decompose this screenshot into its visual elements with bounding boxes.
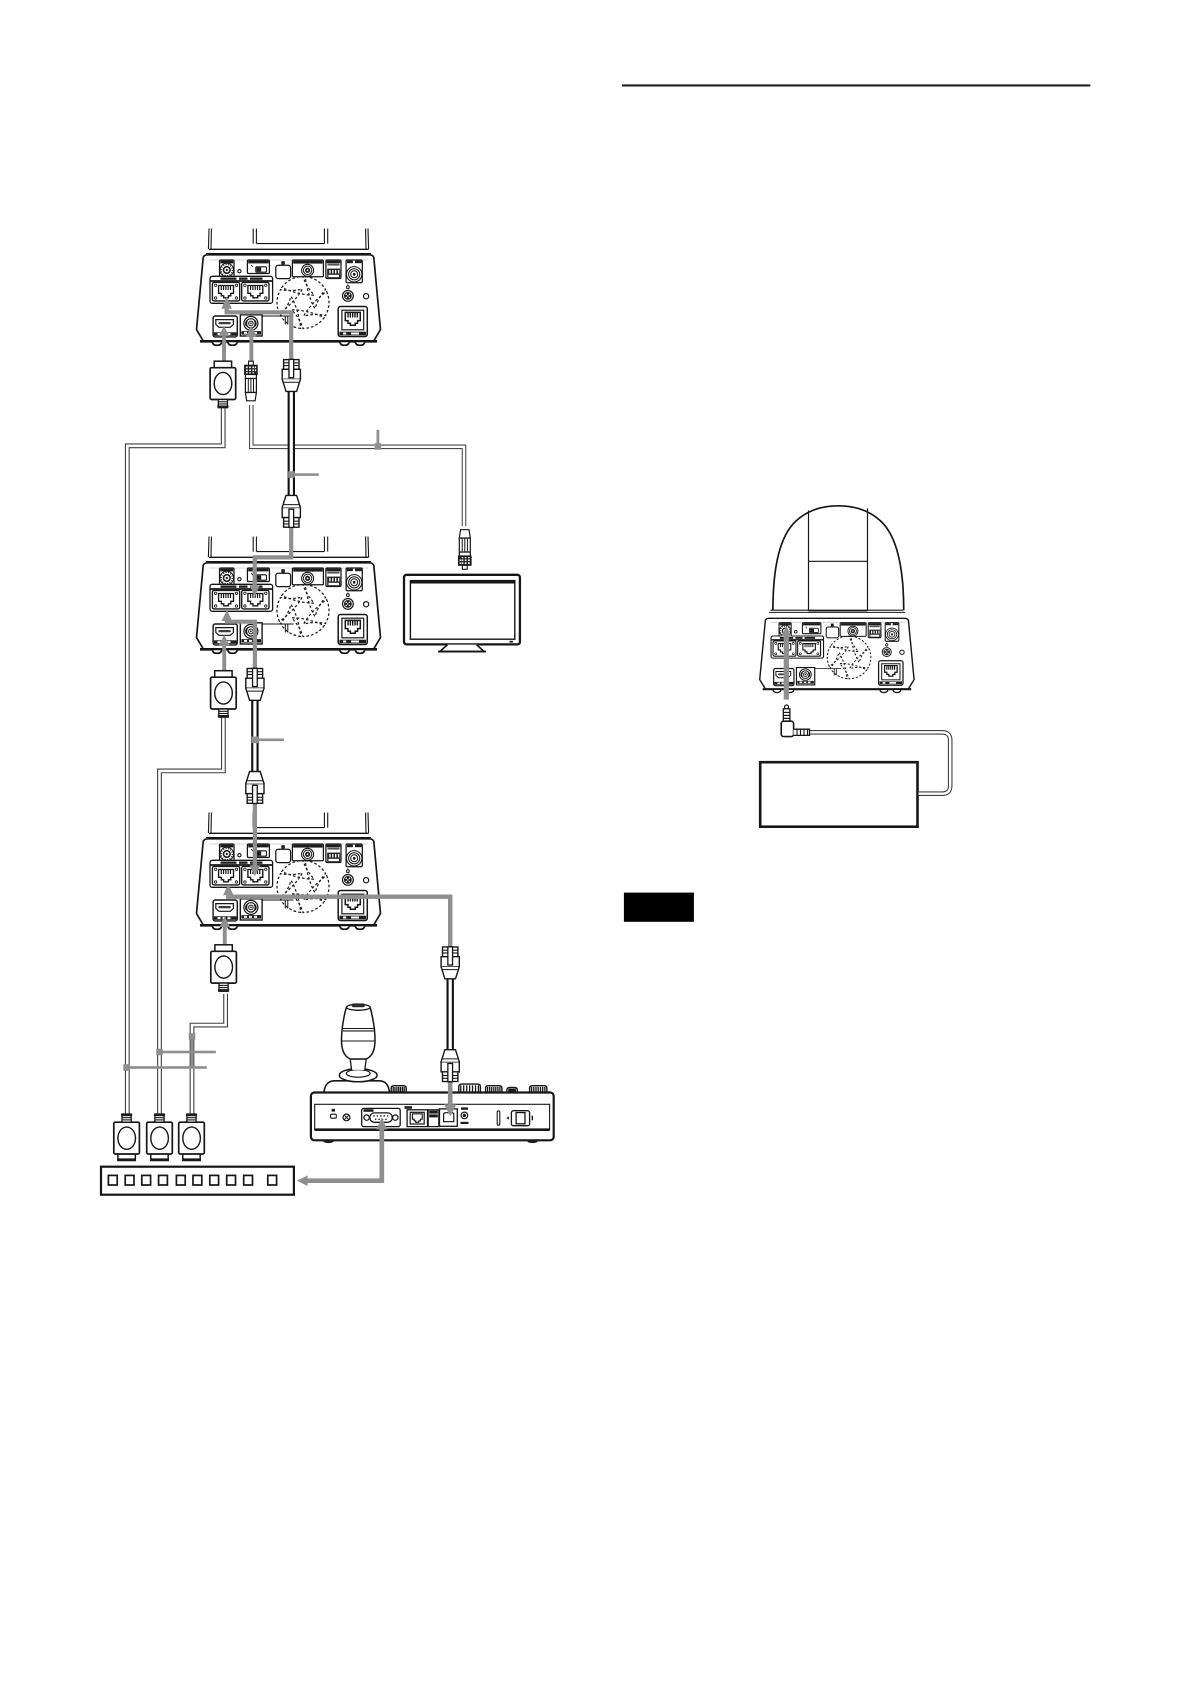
leader tick HDMI cable B: [156, 1049, 216, 1056]
wire cam2 RS422 jack to LAN cable 2: [222, 610, 255, 669]
controller LAN port: [405, 1106, 428, 1126]
controller joystick: [324, 1003, 390, 1094]
HDMI plug hub 1: [114, 1114, 140, 1161]
camera 1 (top left): [197, 229, 381, 346]
wire cam1 SDI arrow: [246, 326, 257, 362]
leader tick LAN cable 1: [288, 471, 319, 478]
controller knobs: [391, 1086, 406, 1093]
network hub: [101, 1167, 294, 1195]
power cable (adaptor): [809, 732, 951, 793]
BNC plug cam1: [245, 361, 258, 401]
controller slot: [497, 1111, 500, 1125]
wire LAN cable 1 into cam2 right jack: [249, 527, 291, 596]
camera 2 (middle left): [197, 537, 381, 654]
LAN cable 2 (cam2-cam3): [246, 668, 264, 803]
note box: [624, 893, 694, 922]
leader tick HDMI cable A: [123, 1064, 206, 1071]
controller power switch: [506, 1111, 533, 1126]
controller screw: [343, 1114, 350, 1121]
controller lock slot: [331, 1109, 337, 1118]
wire cam1 HDMI arrow: [219, 326, 230, 362]
DC plug: [781, 705, 809, 737]
monitor: [404, 575, 520, 652]
HDMI cable B (cam2 to hub): [160, 712, 224, 1118]
HDMI cable A (cam1 to hub): [127, 404, 223, 1118]
wire LAN cable 2 into cam3 right jack: [250, 803, 261, 876]
controller mid panel: [428, 1110, 439, 1127]
controller body: [311, 1093, 554, 1144]
wire cam1 RS422 jack to LAN cable: [221, 297, 291, 361]
wire cam3 HDMI arrow: [219, 917, 230, 946]
wire DC arrow into camera 4: [781, 627, 792, 700]
wire controller VISCA to hub: [297, 1118, 388, 1187]
AC adaptor: [760, 762, 917, 827]
BNC plug monitor: [459, 530, 472, 570]
hub ports: [108, 1175, 276, 1185]
SDI coax cable to monitor: [251, 405, 464, 526]
HDMI plug hub 2: [147, 1114, 173, 1161]
LAN cable 1 (cam1-cam2): [282, 359, 300, 527]
leader tick LAN cable 2: [252, 737, 284, 744]
HDMI plug cam3: [211, 945, 237, 992]
controller VISCA D-sub: [362, 1108, 401, 1126]
leader tick HDMI cable C: [189, 1033, 196, 1067]
LAN cable 3 (controller-cam3): [441, 947, 459, 1082]
controller DC IN: [461, 1107, 469, 1124]
camera 3 (bottom left): [197, 813, 381, 930]
camera 4 body (right): [760, 618, 914, 692]
leader tick SDI cable: [375, 430, 382, 450]
HDMI plug cam1: [210, 361, 236, 408]
wire controller LAN cable into controller: [444, 1081, 456, 1117]
controller RS422 out port: [440, 1109, 458, 1126]
header rule: [622, 84, 1090, 86]
wire controller LAN to cam3 left jack: [223, 884, 450, 947]
HDMI plug hub 3: [179, 1114, 205, 1161]
wire cam2 HDMI arrow: [219, 635, 230, 671]
camera 4 dome: [769, 506, 905, 613]
HDMI cable C (cam3 to hub): [192, 994, 226, 1118]
HDMI plug cam2: [211, 671, 237, 718]
